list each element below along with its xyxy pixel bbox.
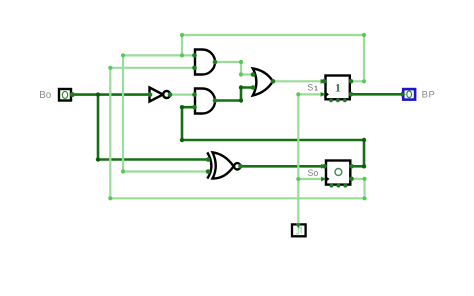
wire: [215, 62, 253, 75]
node AND2 out: [213, 98, 218, 103]
arrow FF2 clk: [321, 177, 326, 182]
wire: [215, 88, 253, 101]
wire: [98, 95, 208, 160]
node FF2 Qbar: [349, 177, 354, 182]
wire: [72, 93, 150, 96]
junction dots dark nets: [96, 85, 366, 168]
node FF2 D: [322, 164, 327, 169]
arrow BP in: [401, 92, 406, 97]
node junction: [296, 177, 300, 181]
not gate U3: [150, 88, 164, 102]
node corner: [362, 33, 366, 37]
node XNOR in B: [206, 169, 211, 174]
flip-flop U1 S1 box: [326, 76, 350, 100]
node corner: [108, 66, 112, 70]
node OR in B: [251, 85, 256, 90]
node AND2 in A: [192, 92, 197, 97]
node corner: [121, 169, 125, 173]
node FF1 Qbar: [349, 92, 354, 97]
node FF1 D: [322, 79, 327, 84]
clock input box: [292, 224, 306, 236]
arrow FF2 D: [321, 164, 326, 169]
node corner: [362, 138, 366, 142]
value digit 0 in Bo: [62, 91, 67, 98]
node NOT out: [168, 92, 173, 97]
node corner: [239, 60, 243, 64]
clk notch FF2: [325, 176, 330, 183]
node OR out: [271, 79, 276, 84]
node corner: [180, 33, 184, 37]
arrow clock box: [296, 224, 301, 229]
wire: [298, 178, 324, 180]
node XNOR in A: [206, 157, 211, 162]
wire: [110, 67, 194, 69]
clk notch FF1: [324, 91, 329, 98]
node FF2 Q: [349, 164, 354, 169]
wire: [241, 165, 325, 168]
node corner: [96, 157, 100, 161]
wire: [298, 94, 324, 223]
svg-text:BP: BP: [422, 90, 436, 101]
node AND1 in B: [192, 66, 197, 71]
node OR in A: [251, 72, 256, 77]
or gate U4: [253, 68, 273, 95]
xnor bubble: [234, 163, 240, 169]
wire: [273, 80, 324, 82]
wire: [182, 107, 364, 166]
node AND2 in B: [192, 105, 197, 110]
arrow FF1 clk: [321, 92, 326, 97]
value digit 0 in FF2: [335, 169, 342, 176]
node AND1 out: [213, 60, 218, 65]
node junction: [96, 92, 100, 96]
node corner: [121, 53, 125, 57]
node corner: [239, 72, 243, 76]
wire: [182, 35, 364, 81]
node corner: [180, 105, 184, 109]
FF1 bottom pins: [329, 99, 333, 103]
pin nodes (dark green): [70, 53, 354, 188]
wire: [123, 54, 195, 56]
not gate bubble: [163, 91, 170, 98]
node corner: [362, 79, 366, 83]
node corner: [296, 92, 300, 96]
input pin Bo box: [59, 89, 71, 101]
gates: [150, 50, 273, 179]
node FF1 Q: [349, 79, 354, 84]
node Bo out: [70, 92, 75, 97]
wire: [110, 68, 364, 199]
svg-text:So: So: [308, 168, 319, 178]
flip-flop U2 So box: [326, 161, 350, 185]
junction dots pale nets: [108, 33, 366, 201]
output pin BP box: [403, 89, 415, 100]
node corner: [108, 196, 112, 200]
arrow FF1 D: [321, 79, 326, 84]
svg-text:S: S: [307, 82, 313, 92]
arrowheads into boxes: [296, 79, 406, 228]
node AND1 in A: [192, 53, 197, 58]
svg-text:1: 1: [335, 81, 341, 95]
wire: [123, 55, 208, 171]
node corner: [239, 98, 243, 102]
node NOT in: [148, 92, 153, 97]
node junction: [180, 53, 184, 57]
wire: [170, 93, 195, 95]
node corner: [362, 177, 366, 181]
and gate AND2: [195, 89, 215, 114]
clock waveform glyph: [296, 228, 301, 234]
node corner: [239, 85, 243, 89]
xnor gate leading curve: [207, 152, 211, 178]
node corner: [362, 164, 366, 168]
svg-text:Bo: Bo: [39, 90, 52, 101]
node corner: [362, 196, 366, 200]
node XNOR out: [238, 164, 243, 169]
value digit 0 in BP: [407, 91, 412, 98]
xnor gate body: [213, 152, 234, 178]
and gate AND1: [195, 50, 215, 75]
node corner: [180, 138, 184, 142]
wire: [351, 93, 403, 96]
FF2 bottom pins: [330, 184, 334, 188]
